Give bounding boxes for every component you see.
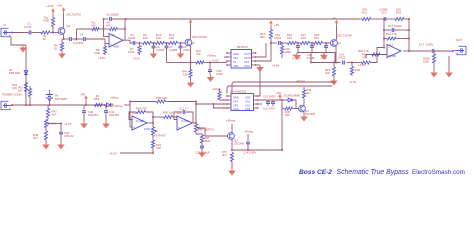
svg-text:100K: 100K — [94, 51, 100, 55]
svg-text:0.47/50V: 0.47/50V — [73, 41, 84, 45]
svg-text:Q1: Q1 — [67, 24, 71, 28]
svg-text:C17: C17 — [419, 43, 425, 47]
svg-text:+9V: +9V — [80, 93, 85, 97]
svg-text:OUT1: OUT1 — [244, 52, 251, 56]
svg-text:+4.5V: +4.5V — [98, 56, 105, 60]
svg-text:2SC945: 2SC945 — [234, 142, 245, 146]
svg-text:100K: 100K — [423, 60, 430, 64]
svg-text:470K: 470K — [43, 19, 49, 23]
svg-text:+4.5V: +4.5V — [109, 152, 117, 156]
svg-text:+9Vreg: +9Vreg — [244, 130, 253, 134]
svg-text:100/16V: 100/16V — [88, 113, 99, 117]
svg-text:+4.5V: +4.5V — [212, 60, 219, 63]
svg-text:R23: R23 — [355, 68, 361, 72]
svg-text:Boss CE-2: Boss CE-2 — [299, 169, 332, 176]
svg-text:47K: 47K — [106, 24, 111, 28]
svg-text:1K: 1K — [54, 47, 57, 51]
svg-text:GND: GND — [233, 96, 239, 100]
svg-text:0.0068: 0.0068 — [379, 8, 388, 12]
svg-text:0.033: 0.033 — [338, 56, 345, 60]
svg-text:C12 4.7: C12 4.7 — [179, 107, 189, 111]
svg-text:+4.5V: +4.5V — [46, 4, 54, 8]
svg-text:-: - — [133, 117, 135, 121]
svg-text:IN: IN — [233, 60, 236, 64]
svg-text:VR2 DEPTH: VR2 DEPTH — [198, 128, 214, 132]
svg-text:+9V: +9V — [331, 17, 336, 21]
svg-text:Q2: Q2 — [337, 41, 341, 45]
svg-text:VDD: VDD — [245, 96, 251, 100]
svg-text:+9Vreg: +9Vreg — [110, 96, 119, 100]
svg-text:10K: 10K — [156, 36, 161, 40]
svg-text:OX1: OX1 — [245, 100, 251, 104]
svg-text:10K: 10K — [325, 71, 330, 75]
svg-text:1M: 1M — [18, 89, 23, 93]
svg-text:0.0082: 0.0082 — [169, 48, 178, 52]
svg-text:+9V: +9V — [274, 23, 279, 27]
svg-text:RD5.1EB: RD5.1EB — [9, 71, 20, 75]
svg-text:R06 47K: R06 47K — [136, 107, 147, 111]
svg-text:33K: 33K — [285, 113, 290, 117]
svg-text:CP2: CP2 — [244, 60, 250, 64]
svg-text:10K: 10K — [314, 36, 319, 40]
svg-text:10K: 10K — [301, 36, 306, 40]
svg-text:4K7: 4K7 — [306, 91, 311, 95]
svg-text:VGG: VGG — [233, 107, 239, 111]
svg-text:J1: J1 — [3, 23, 6, 27]
svg-text:100: 100 — [156, 146, 161, 150]
svg-text:+4.5V: +4.5V — [358, 63, 366, 67]
svg-text:C16 100pF: C16 100pF — [388, 24, 402, 28]
svg-text:47K: 47K — [91, 24, 96, 28]
svg-text:10K: 10K — [287, 36, 292, 40]
svg-text:R55 22K: R55 22K — [156, 96, 167, 100]
svg-text:VR1 RATE: VR1 RATE — [152, 134, 166, 138]
svg-text:IC4 MN3101: IC4 MN3101 — [230, 90, 247, 94]
svg-text:C21 0.01uF: C21 0.01uF — [195, 151, 210, 155]
svg-text:C24 1/50V: C24 1/50V — [243, 151, 256, 155]
svg-text:C22 470P: C22 470P — [263, 107, 275, 111]
svg-text:100K: 100K — [144, 127, 150, 131]
svg-text:1K: 1K — [43, 37, 46, 41]
svg-text:10K: 10K — [169, 36, 174, 40]
svg-text:OUT2: OUT2 — [244, 56, 251, 60]
svg-text:4558: 4558 — [113, 45, 119, 49]
svg-text:R00 1M: R00 1M — [163, 111, 173, 115]
svg-text:Ca 100pF: Ca 100pF — [106, 13, 119, 17]
svg-text:IC2: IC2 — [132, 111, 137, 115]
svg-text:10K: 10K — [183, 73, 188, 77]
svg-text:CP1: CP1 — [233, 56, 239, 60]
svg-text:+: + — [178, 126, 180, 130]
svg-text:+4.5V: +4.5V — [133, 57, 140, 61]
svg-text:-: - — [178, 117, 180, 121]
svg-text:CP1: CP1 — [233, 100, 239, 104]
svg-text:0.033: 0.033 — [274, 36, 281, 40]
svg-text:IC1: IC1 — [389, 43, 394, 47]
svg-text:0.033: 0.033 — [128, 36, 136, 40]
svg-text:56K: 56K — [260, 35, 265, 39]
svg-text:VDD: VDD — [233, 64, 239, 68]
svg-text:IC1: IC1 — [111, 33, 116, 37]
svg-text:2SC732TM: 2SC732TM — [192, 35, 207, 39]
svg-text:+9Vreg: +9Vreg — [114, 104, 124, 108]
svg-text:OUT: OUT — [456, 38, 462, 42]
svg-text:C4: C4 — [80, 34, 84, 37]
svg-text:100K: 100K — [128, 50, 135, 54]
svg-text:39: 39 — [96, 94, 100, 98]
svg-text:1/50V: 1/50V — [216, 72, 223, 76]
svg-text:IC2: IC2 — [177, 111, 182, 115]
svg-text:100K: 100K — [285, 50, 292, 54]
svg-text:2SC732TM: 2SC732TM — [66, 13, 81, 17]
svg-text:+9Vreg: +9Vreg — [207, 54, 216, 58]
svg-text:+9Vreg: +9Vreg — [226, 119, 236, 123]
svg-text:4K7: 4K7 — [222, 153, 227, 157]
svg-text:BATTERY: BATTERY — [55, 97, 68, 101]
svg-text:CP2: CP2 — [233, 104, 239, 108]
svg-text:GND: GND — [233, 52, 239, 56]
svg-text:10K: 10K — [396, 8, 401, 12]
svg-text:MN3007: MN3007 — [237, 45, 248, 49]
svg-text:1/50V: 1/50V — [426, 43, 433, 47]
svg-text:+4.5V: +4.5V — [272, 64, 280, 68]
svg-text:Schematic True Bypass: Schematic True Bypass — [337, 169, 410, 176]
svg-text:2SC732TM: 2SC732TM — [337, 34, 352, 38]
svg-text:R20 47K: R20 47K — [358, 49, 369, 53]
svg-text:47K: 47K — [196, 52, 201, 56]
svg-text:D2 RD10MB: D2 RD10MB — [284, 94, 300, 98]
svg-text:47K: 47K — [362, 8, 367, 12]
svg-text:10K: 10K — [12, 86, 17, 90]
svg-text:Q2: Q2 — [191, 41, 195, 45]
svg-text:4558: 4558 — [390, 54, 397, 58]
svg-text:+4.5V: +4.5V — [349, 80, 357, 84]
svg-text:R24 47K: R24 47K — [386, 32, 397, 36]
svg-text:+: + — [133, 126, 135, 130]
svg-text:CN3: CN3 — [245, 107, 251, 111]
svg-text:+9V: +9V — [57, 4, 62, 8]
svg-text:TL022: TL022 — [181, 119, 189, 123]
svg-text:+: + — [110, 43, 112, 47]
svg-text:POWER CONN: POWER CONN — [2, 93, 22, 97]
svg-text:47/6.3V: 47/6.3V — [64, 134, 74, 138]
svg-text:VGG: VGG — [244, 64, 250, 68]
svg-text:+4.5V: +4.5V — [64, 122, 72, 126]
svg-text:10K: 10K — [143, 36, 148, 40]
svg-text:2SC945: 2SC945 — [305, 112, 316, 116]
svg-text:C23 220P: C23 220P — [263, 95, 275, 99]
svg-text:CN1: CN1 — [245, 104, 251, 108]
svg-text:ElectroSmash.com: ElectroSmash.com — [412, 169, 465, 176]
svg-text:4K7: 4K7 — [33, 136, 38, 140]
svg-text:0.0033: 0.0033 — [156, 48, 165, 52]
svg-text:+9V: +9V — [276, 91, 281, 95]
svg-text:47NF: 47NF — [183, 48, 190, 52]
svg-text:+9Vreg: +9Vreg — [296, 79, 305, 83]
svg-text:220/16V: 220/16V — [109, 113, 120, 117]
svg-text:200K: 200K — [204, 139, 211, 143]
svg-text:0.047: 0.047 — [24, 25, 32, 29]
svg-text:4K7: 4K7 — [52, 113, 57, 117]
svg-text:TL022: TL022 — [136, 119, 144, 123]
